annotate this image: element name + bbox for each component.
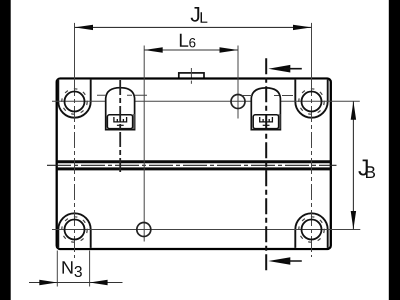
port right comb contacts [260, 117, 273, 122]
tab centerline tail [190, 81, 192, 84]
label J_L [191, 7, 200, 22]
label N3 [62, 261, 72, 273]
port hole bottom (small circle) [137, 223, 151, 237]
port left tangent centerline [97, 94, 148, 96]
lug bottom-right [295, 213, 327, 248]
transverse centerline bottom row [52, 229, 360, 231]
port right (lube connector) [251, 88, 280, 130]
bolt hole bottom-right [302, 220, 322, 240]
dimension J_B line [352, 101, 354, 229]
lug top-right [295, 80, 327, 118]
port right shaded edge [278, 114, 280, 129]
body outline [57, 79, 331, 250]
L6 left extension / bottom port-hole centerline [143, 46, 145, 242]
rail band top edge [57, 160, 331, 163]
rail band centerline [47, 164, 337, 166]
tab centerline [190, 68, 192, 84]
lug bottom-left [58, 213, 90, 248]
bolt hole top-right [302, 92, 322, 112]
right black bar [389, 0, 400, 300]
lug top-left [58, 80, 90, 118]
port right tangent centerline [243, 95, 293, 97]
port left comb contacts [114, 117, 127, 122]
left black bar [0, 0, 11, 300]
port left inner insert [107, 115, 132, 129]
port right inner insert [253, 115, 278, 129]
transverse centerline top row [52, 100, 360, 102]
dimension N3 line [29, 282, 123, 284]
dimension N3 extension right [89, 251, 91, 287]
port left shaded edge [133, 114, 135, 129]
section arrow top [268, 65, 290, 73]
bolt centerline left (vertical) [74, 23, 76, 80]
section line / port right centerline [265, 58, 267, 270]
bolt centerline right (vertical) [311, 23, 313, 80]
top tab (lube plate) [179, 73, 204, 80]
bolt hole top-left [65, 92, 85, 112]
dimension N3 extension left [56, 251, 58, 287]
port left centerline [119, 80, 121, 172]
dimension J_L line [75, 26, 312, 28]
bolt hole bottom-left [65, 220, 85, 240]
port hole top (small circle) [231, 95, 245, 109]
label L6 [180, 34, 188, 47]
section arrow bottom [268, 257, 290, 265]
port left (lube connector) [106, 88, 135, 130]
L6 right extension / top port-hole centerline [237, 46, 239, 119]
rail band bottom edge [57, 167, 331, 170]
label J_B [358, 159, 367, 175]
dimension L6 line [144, 49, 238, 51]
